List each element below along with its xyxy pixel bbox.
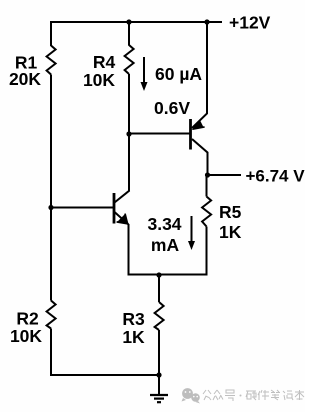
svg-text:mA: mA bbox=[151, 235, 180, 255]
char bi bbox=[271, 390, 280, 400]
watermark: gongzhonghao text (simplified CJK strokes) bbox=[203, 390, 304, 401]
svg-text:10K: 10K bbox=[83, 70, 115, 90]
wire: Q1 emitter to R5 bottom connector bbox=[129, 274, 208, 276]
char ji bbox=[283, 391, 293, 400]
svg-text:R5: R5 bbox=[219, 202, 242, 222]
wire: +12V top rail bbox=[50, 21, 222, 23]
svg-text:+12V: +12V bbox=[229, 13, 271, 33]
resistor R5 bbox=[202, 197, 211, 227]
ground symbol bbox=[150, 395, 168, 402]
transistor Q1 emitter arrow (NPN, outward) bbox=[117, 214, 129, 225]
junction: R4-Q1 collector-Q2 base node bbox=[126, 131, 131, 136]
transistor Q1 base bar bbox=[113, 193, 116, 224]
watermark: wechat icon bbox=[182, 388, 201, 403]
wire: junction down to R3 bbox=[158, 275, 160, 302]
separator dot bbox=[240, 395, 242, 397]
char zhong bbox=[213, 390, 223, 400]
resistor R2 bbox=[47, 301, 56, 329]
wire: Q1 emitter down to connector bbox=[128, 224, 130, 276]
svg-text:10K: 10K bbox=[10, 326, 42, 346]
wire: +6.74V node lead bbox=[208, 174, 242, 176]
wire: left branch upper (rail to R1) bbox=[50, 21, 52, 46]
junction: connector to R3 bbox=[156, 272, 161, 277]
wire: Q1 base wire from left rail bbox=[51, 207, 114, 209]
wire: node to R5 top bbox=[206, 175, 208, 197]
resistor R3 bbox=[155, 302, 164, 330]
resistor R4 bbox=[125, 45, 134, 74]
junction: Q2 collector / R5 / +6.74V node bbox=[205, 172, 210, 177]
junction: left rail to Q1 base bbox=[48, 205, 53, 210]
transistor Q2 emitter wire from +12V rail bbox=[192, 21, 207, 128]
char hao bbox=[225, 390, 235, 401]
char ying bbox=[246, 391, 256, 400]
svg-text:R3: R3 bbox=[122, 309, 145, 329]
svg-text:1K: 1K bbox=[219, 222, 242, 242]
svg-text:20K: 20K bbox=[9, 69, 41, 89]
wire: bottom rail to ground junction bbox=[50, 374, 159, 376]
wire: ground stub bbox=[158, 375, 160, 395]
char gong bbox=[203, 390, 211, 400]
wire: R1 bottom to R2 top (left rail) bbox=[50, 75, 52, 301]
transistor Q2 emitter arrow (PNP, into base) bbox=[192, 120, 205, 130]
current arrow: 60 uA through R4 bbox=[141, 57, 148, 91]
svg-text:1K: 1K bbox=[122, 327, 145, 347]
svg-text:R4: R4 bbox=[93, 52, 116, 72]
svg-text:+6.74 V: +6.74 V bbox=[246, 167, 306, 186]
wire: R4 bottom to Q1 collector node bbox=[128, 74, 130, 191]
wire: R2 bottom to bottom rail bbox=[50, 329, 52, 377]
wire: R4 branch upper (rail to R4) bbox=[128, 21, 130, 46]
resistor R1 bbox=[47, 46, 56, 75]
junction: bottom rail / ground bbox=[156, 372, 161, 377]
svg-text:60 µA: 60 µA bbox=[155, 64, 202, 84]
svg-text:0.6V: 0.6V bbox=[154, 98, 190, 118]
wire: R3 bottom to bottom rail bbox=[158, 330, 160, 375]
char ben bbox=[295, 390, 304, 400]
current arrow: 3.34 mA through R5 bbox=[188, 216, 195, 250]
transistor Q2 collector diagonal bbox=[192, 139, 208, 175]
transistor Q2 base bar bbox=[189, 119, 192, 150]
transistor Q1 emitter diagonal bbox=[115, 212, 129, 225]
char jian bbox=[258, 390, 269, 400]
wire: R5 bottom to connector bbox=[206, 227, 208, 275]
transistor Q1 collector diagonal to R4 node bbox=[115, 191, 130, 203]
junction: Q2 emitter top rail bbox=[204, 19, 209, 24]
junction: R4 top rail bbox=[126, 19, 131, 24]
svg-text:3.34: 3.34 bbox=[147, 214, 181, 234]
wire: Q2 base wire from R4/Q1 node bbox=[129, 133, 191, 135]
